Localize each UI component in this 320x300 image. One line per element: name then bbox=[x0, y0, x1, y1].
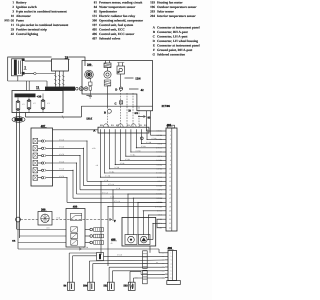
svg-text:A: A bbox=[153, 26, 156, 30]
svg-text:5: 5 bbox=[170, 147, 171, 150]
svg-text:Control unit, ECC sensor: Control unit, ECC sensor bbox=[99, 32, 135, 36]
water temperature sensor 84 bbox=[104, 63, 111, 68]
495 pin 7 bbox=[163, 155, 167, 157]
svg-text:B: B bbox=[104, 111, 106, 114]
svg-text:0.5 BL: 0.5 BL bbox=[109, 170, 114, 173]
svg-text:23: 23 bbox=[169, 222, 171, 225]
svg-text:C: C bbox=[115, 102, 117, 105]
svg-text:197: 197 bbox=[92, 23, 97, 27]
solenoid valve 4 bbox=[33, 160, 38, 165]
svg-text:3: 3 bbox=[170, 138, 171, 141]
svg-text:Battery: Battery bbox=[16, 0, 27, 4]
wire from 497 top right bbox=[53, 129, 98, 131]
wires A to 495 bbox=[146, 133, 148, 139]
wires below fuse box bbox=[16, 110, 18, 113]
496 pin 4 bbox=[165, 262, 168, 264]
svg-text:2: 2 bbox=[12, 5, 14, 9]
503 wires to 496 bbox=[130, 271, 141, 273]
495 pin 6 bbox=[163, 151, 167, 153]
connector 496 bbox=[168, 251, 177, 281]
wire down-left L to bottom bbox=[17, 222, 19, 249]
svg-text:0.5: 0.5 bbox=[162, 263, 164, 265]
svg-text:495: 495 bbox=[92, 27, 97, 31]
ground below 200 bbox=[86, 94, 91, 96]
svg-text:Operating solenoid, compressor: Operating solenoid, compressor bbox=[99, 18, 144, 22]
solenoid valve 5 bbox=[33, 168, 38, 173]
svg-text:2/1: 2/1 bbox=[111, 124, 114, 127]
wire sensor box edge to 495 pins 1-2 bbox=[147, 130, 163, 132]
svg-text:0.5 GR: 0.5 GR bbox=[59, 175, 65, 178]
svg-text:Electric radiator fan relay: Electric radiator fan relay bbox=[99, 14, 136, 18]
svg-text:D: D bbox=[153, 39, 156, 43]
relay outputs with connectors bbox=[85, 229, 90, 231]
component riser pairs bbox=[68, 253, 70, 282]
495 pin 14 bbox=[163, 185, 167, 187]
svg-text:F: F bbox=[153, 48, 155, 52]
svg-text:3/2: 3/2 bbox=[139, 124, 142, 127]
svg-text:0.5 BL: 0.5 BL bbox=[130, 154, 135, 157]
495 pin 2 bbox=[163, 134, 167, 136]
svg-text:11: 11 bbox=[169, 172, 171, 175]
svg-text:496: 496 bbox=[92, 32, 97, 36]
svg-text:C: C bbox=[153, 35, 156, 39]
svg-text:8: 8 bbox=[170, 159, 171, 162]
495 pin 12 bbox=[163, 176, 167, 178]
495 pin 19 bbox=[163, 206, 167, 208]
bus bar terminal circles bbox=[76, 87, 79, 90]
outdoor temperature sensor 196 bbox=[117, 66, 125, 74]
inline connector block 2 bbox=[143, 270, 148, 284]
svg-text:0.5: 0.5 bbox=[162, 277, 164, 279]
svg-text:3: 3 bbox=[171, 259, 172, 262]
svg-text:0.5 GR: 0.5 GR bbox=[59, 146, 65, 149]
svg-text:0.75 GN: 0.75 GN bbox=[102, 191, 109, 194]
dashed wires to A bbox=[126, 93, 128, 127]
svg-text:E: E bbox=[153, 44, 155, 48]
svg-text:15: 15 bbox=[169, 189, 171, 192]
svg-text:42: 42 bbox=[11, 32, 15, 36]
svg-text:Connector, LH A-post: Connector, LH A-post bbox=[157, 35, 188, 39]
495 pin 18 bbox=[163, 201, 167, 203]
wires into G bbox=[69, 252, 96, 254]
wire ref 12/4 bbox=[125, 77, 134, 79]
svg-text:33: 33 bbox=[128, 109, 131, 112]
svg-text:4: 4 bbox=[171, 262, 172, 265]
svg-text:3/2: 3/2 bbox=[100, 124, 103, 127]
solenoid valve 1 bbox=[33, 138, 38, 143]
svg-text:2/1: 2/1 bbox=[127, 124, 130, 127]
svg-text:12-pin socket in combined inst: 12-pin socket in combined instrument bbox=[16, 23, 69, 27]
relay contact bbox=[70, 213, 81, 220]
fuse F3 bbox=[41, 101, 45, 109]
495 pin 22 bbox=[163, 218, 167, 220]
svg-text:6: 6 bbox=[170, 151, 171, 154]
svg-text:16 R: 16 R bbox=[46, 227, 50, 230]
svg-text:131: 131 bbox=[92, 14, 97, 18]
wire solar to pin link bbox=[147, 239, 153, 241]
control unit 495 bbox=[166, 128, 177, 231]
svg-text:1: 1 bbox=[12, 0, 14, 4]
svg-text:10: 10 bbox=[169, 168, 171, 171]
svg-text:497: 497 bbox=[92, 36, 97, 40]
wire into relay box y229.5 bbox=[17, 229, 67, 231]
svg-text:0.5 SB: 0.5 SB bbox=[105, 175, 111, 178]
svg-text:0.5 SB: 0.5 SB bbox=[136, 149, 142, 152]
wire into relay box y236 bbox=[20, 235, 67, 237]
solar sensor 203 bbox=[139, 235, 151, 245]
svg-text:11: 11 bbox=[11, 23, 14, 27]
svg-text:F2: F2 bbox=[33, 102, 35, 105]
svg-text:B: B bbox=[153, 30, 156, 34]
wire ref 42 bbox=[129, 88, 139, 90]
svg-text:Connector at instrument panel: Connector at instrument panel bbox=[157, 44, 200, 48]
pins below 29 bbox=[54, 71, 56, 87]
495 pin 23 bbox=[163, 222, 167, 224]
wire battery to terminal strip bbox=[25, 60, 52, 62]
svg-text:1: 1 bbox=[24, 66, 26, 70]
svg-text:41: 41 bbox=[111, 242, 113, 245]
495 pin 21 bbox=[163, 214, 167, 216]
495 pin 1 bbox=[163, 130, 167, 132]
495 pin 4 bbox=[163, 143, 167, 145]
svg-text:0.75 GN: 0.75 GN bbox=[114, 200, 121, 203]
svg-text:0.5 BL: 0.5 BL bbox=[120, 162, 125, 165]
svg-text:24: 24 bbox=[169, 226, 171, 229]
wires 497 to lower 495 rows bbox=[53, 140, 88, 142]
svg-text:18: 18 bbox=[169, 201, 171, 204]
496 pin 3 bbox=[165, 259, 168, 261]
495 pin 13 bbox=[163, 180, 167, 182]
wire 6/2 bbox=[81, 105, 152, 107]
svg-text:F: F bbox=[114, 219, 116, 223]
svg-text:0.5 SB: 0.5 SB bbox=[146, 141, 152, 144]
svg-text:Connector at instrument panel: Connector at instrument panel bbox=[157, 26, 200, 30]
svg-text:7: 7 bbox=[170, 155, 171, 158]
495 pin 20 bbox=[163, 210, 167, 212]
svg-text:0.5 GR: 0.5 GR bbox=[59, 168, 65, 171]
solenoid valve 3 bbox=[33, 153, 38, 158]
svg-text:Soldered connection: Soldered connection bbox=[157, 53, 185, 57]
wires down to fuse box bbox=[26, 81, 28, 91]
svg-text:0.5: 0.5 bbox=[162, 274, 164, 276]
svg-text:12/4: 12/4 bbox=[135, 76, 141, 80]
svg-text:D: D bbox=[118, 71, 120, 74]
svg-text:196: 196 bbox=[150, 5, 155, 9]
wire 498 down bbox=[149, 246, 151, 253]
svg-text:Connector, RH A-post: Connector, RH A-post bbox=[157, 30, 189, 34]
svg-text:17: 17 bbox=[169, 197, 171, 200]
495 pin 3 bbox=[163, 138, 167, 140]
svg-text:Control unit, ECC: Control unit, ECC bbox=[99, 27, 125, 31]
wire into relay box y242.5 bbox=[18, 242, 66, 244]
svg-text:131/I: 131/I bbox=[86, 118, 92, 121]
495 pin 24 bbox=[163, 227, 167, 229]
svg-text:16 R: 16 R bbox=[56, 216, 60, 219]
svg-text:4 R: 4 R bbox=[96, 164, 99, 167]
496 pin 2 bbox=[165, 255, 168, 257]
svg-text:84: 84 bbox=[94, 5, 98, 9]
svg-text:G: G bbox=[152, 53, 155, 57]
svg-text:0.5: 0.5 bbox=[162, 270, 164, 272]
svg-text:22: 22 bbox=[169, 218, 171, 221]
svg-text:503: 503 bbox=[123, 285, 128, 288]
stubs bus bar to fuses bbox=[17, 98, 19, 101]
ground F bbox=[109, 218, 111, 221]
svg-text:Ground point, RH A-post: Ground point, RH A-post bbox=[157, 48, 193, 52]
svg-text:300: 300 bbox=[41, 207, 46, 211]
504 wires to 496 bbox=[89, 260, 165, 261]
svg-text:F3: F3 bbox=[47, 102, 49, 105]
long verticals to bottom area bbox=[100, 181, 102, 255]
svg-text:193: 193 bbox=[150, 0, 155, 4]
fuse F2 bbox=[27, 101, 31, 109]
soldered joint G bbox=[97, 253, 104, 261]
svg-text:Alternator: Alternator bbox=[16, 14, 31, 18]
svg-text:GR: GR bbox=[12, 240, 16, 243]
svg-text:204: 204 bbox=[150, 14, 155, 18]
wire to 131/I bbox=[25, 113, 27, 118]
svg-text:19: 19 bbox=[169, 205, 171, 208]
svg-text:0.5 GR: 0.5 GR bbox=[59, 160, 65, 163]
svg-text:0.5 BL: 0.5 BL bbox=[152, 137, 157, 140]
svg-text:Outdoor temperature sensor: Outdoor temperature sensor bbox=[157, 5, 197, 9]
inline connector oval bbox=[12, 117, 25, 123]
fuse F1 bbox=[16, 102, 20, 110]
svg-text:14: 14 bbox=[169, 184, 171, 187]
495 pin 16 bbox=[163, 193, 167, 195]
svg-text:4: 4 bbox=[170, 142, 171, 145]
bus bar +30 bbox=[15, 94, 36, 98]
495 pin 17 bbox=[163, 197, 167, 199]
svg-text:Positive terminal strip: Positive terminal strip bbox=[16, 27, 47, 31]
495 pin 9 bbox=[163, 164, 167, 166]
svg-text:2: 2 bbox=[171, 255, 172, 258]
svg-text:Heating fan motor: Heating fan motor bbox=[157, 0, 183, 4]
lower wire mesh bbox=[128, 193, 163, 195]
solenoid valve 6 bbox=[33, 175, 38, 180]
sensor box 200 outline bbox=[82, 61, 153, 111]
svg-text:12: 12 bbox=[169, 176, 171, 179]
svg-text:+30: +30 bbox=[37, 95, 42, 99]
junction circle bbox=[16, 217, 21, 222]
svg-text:42: 42 bbox=[141, 88, 145, 92]
svg-text:0.75 GN: 0.75 GN bbox=[108, 183, 115, 186]
496 pin 8 bbox=[165, 277, 168, 279]
svg-text:Connector, LH wheel housing: Connector, LH wheel housing bbox=[157, 39, 198, 43]
svg-text:0.5: 0.5 bbox=[162, 256, 164, 258]
engine compartment boundary bbox=[8, 57, 85, 81]
bus bar top bbox=[45, 87, 75, 91]
G to 496 bbox=[104, 255, 166, 257]
legend text bbox=[4, 0, 199, 56]
svg-text:8: 8 bbox=[171, 276, 172, 279]
svg-text:8-pin socket in combined instr: 8-pin socket in combined instrument bbox=[16, 9, 68, 13]
svg-text:Fuses: Fuses bbox=[16, 18, 25, 22]
svg-text:0.5: 0.5 bbox=[162, 260, 164, 262]
496 pin 7 bbox=[165, 273, 168, 275]
svg-text:10: 10 bbox=[11, 14, 15, 18]
svg-text:0.5: 0.5 bbox=[162, 253, 164, 255]
svg-text:Solar sensor: Solar sensor bbox=[157, 9, 175, 13]
495 pin 11 bbox=[163, 172, 167, 174]
svg-text:5: 5 bbox=[171, 266, 172, 269]
svg-text:3: 3 bbox=[12, 9, 14, 13]
svg-text:81: 81 bbox=[94, 0, 98, 4]
495 pin 8 bbox=[163, 159, 167, 161]
interior temperature sensor 204 bbox=[125, 235, 137, 245]
svg-text:7: 7 bbox=[171, 273, 172, 276]
svg-text:Solenoid valves: Solenoid valves bbox=[99, 36, 121, 40]
svg-text:4 GR: 4 GR bbox=[92, 147, 96, 150]
wires bottom bus to 496 bbox=[76, 248, 160, 250]
svg-text:203: 203 bbox=[150, 9, 155, 13]
svg-text:6/2: 6/2 bbox=[135, 112, 139, 115]
svg-text:13: 13 bbox=[169, 180, 171, 183]
svg-text:Water temperature sensor: Water temperature sensor bbox=[99, 5, 136, 9]
svg-text:0.5 GR: 0.5 GR bbox=[59, 153, 65, 156]
svg-text:0.5 GR: 0.5 GR bbox=[117, 254, 123, 257]
sensor 200 body bbox=[85, 70, 94, 79]
wire battery lower with connector bbox=[25, 73, 34, 75]
svg-text:D: D bbox=[115, 88, 117, 91]
svg-text:16: 16 bbox=[169, 193, 171, 196]
svg-text:0.5 GR: 0.5 GR bbox=[59, 138, 65, 141]
svg-text:9: 9 bbox=[170, 163, 171, 166]
502 wires to 496 bbox=[109, 266, 165, 268]
W glyph in 503 bbox=[130, 284, 134, 289]
node G circle near A bbox=[140, 137, 143, 140]
svg-text:85: 85 bbox=[94, 9, 98, 13]
svg-text:6: 6 bbox=[171, 269, 172, 272]
svg-text:F01-26: F01-26 bbox=[4, 18, 14, 22]
svg-text:Central lighting: Central lighting bbox=[16, 32, 38, 36]
svg-text:1.5 SB: 1.5 SB bbox=[83, 246, 89, 249]
svg-text:Speedometer: Speedometer bbox=[99, 9, 118, 13]
svg-text:29: 29 bbox=[11, 27, 15, 31]
svg-text:3/2: 3/2 bbox=[116, 124, 119, 127]
svg-text:84: 84 bbox=[64, 285, 67, 288]
495 pin 5 bbox=[163, 147, 167, 149]
svg-text:217/06: 217/06 bbox=[162, 104, 171, 108]
495 pin 10 bbox=[163, 168, 167, 170]
svg-text:Control unit, fuel system: Control unit, fuel system bbox=[99, 23, 134, 27]
svg-text:A: A bbox=[93, 129, 96, 133]
svg-text:20: 20 bbox=[169, 210, 171, 213]
496 pin 1 bbox=[165, 252, 168, 254]
svg-text:Interior temperature sensor: Interior temperature sensor bbox=[157, 14, 196, 18]
solenoid valve 2 bbox=[33, 146, 38, 151]
svg-text:Pressure sensor, reading circu: Pressure sensor, reading circuit bbox=[99, 0, 143, 4]
496 pin 5 bbox=[165, 266, 168, 268]
svg-text:1: 1 bbox=[170, 130, 171, 133]
svg-text:0.5: 0.5 bbox=[162, 267, 164, 269]
inline connector block 1 bbox=[143, 251, 148, 268]
svg-text:504: 504 bbox=[83, 285, 88, 288]
svg-text:0.5 SB: 0.5 SB bbox=[125, 158, 131, 161]
jumper arcs above A bbox=[103, 124, 108, 127]
wire 83 bbox=[138, 116, 146, 118]
svg-text:1: 1 bbox=[171, 252, 172, 255]
svg-text:300: 300 bbox=[92, 18, 97, 22]
svg-text:0.5 BL: 0.5 BL bbox=[141, 145, 146, 148]
svg-text:21: 21 bbox=[169, 214, 171, 217]
svg-text:Ignition switch: Ignition switch bbox=[16, 5, 37, 9]
svg-text:0.5 SB: 0.5 SB bbox=[114, 166, 120, 169]
svg-text:2: 2 bbox=[170, 134, 171, 137]
496 pin 6 bbox=[165, 270, 168, 272]
svg-text:F1: F1 bbox=[22, 103, 24, 106]
495 pin 15 bbox=[163, 189, 167, 191]
battery negative down to bus bbox=[17, 76, 19, 81]
fuse box 11 bbox=[12, 91, 63, 113]
battery 1 bbox=[12, 59, 23, 76]
